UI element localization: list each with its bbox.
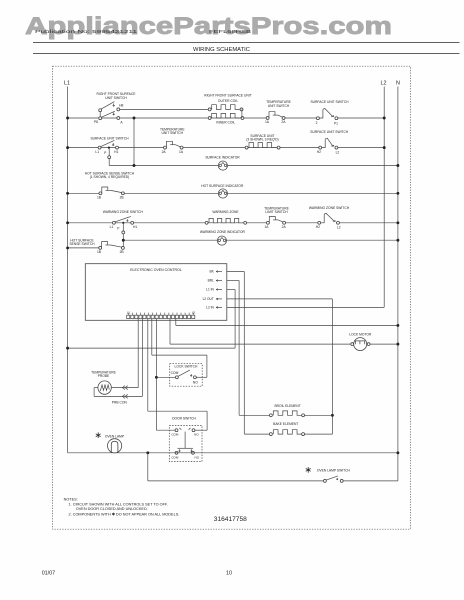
switch temperature limit switch [264, 206, 289, 229]
svg-text:L1: L1 [110, 225, 114, 229]
svg-text:UNIT SWITCH: UNIT SWITCH [105, 96, 127, 100]
svg-text:HOT SURFACE INDICATOR: HOT SURFACE INDICATOR [201, 184, 244, 188]
svg-text:LOCK SWITCH: LOCK SWITCH [175, 365, 199, 369]
svg-text:L1: L1 [64, 81, 70, 87]
svg-text:2: 2 [316, 121, 318, 125]
svg-text:01/07: 01/07 [42, 571, 56, 577]
wire row A upper branch [118, 108, 209, 110]
svg-text:PRB CON: PRB CON [112, 401, 128, 405]
wire EOC to lock motor line [170, 319, 351, 345]
svg-text:LIMIT SWITCH: LIMIT SWITCH [265, 210, 288, 214]
wire row F (to N) [122, 239, 399, 242]
wire EOC pin L2-IN to bus L2 [227, 306, 384, 308]
svg-text:OVEN LAMP: OVEN LAMP [105, 435, 125, 439]
svg-text:NO: NO [194, 433, 199, 437]
svg-text:2. COMPONENTS WITH ✱ DO NOT: 2. COMPONENTS WITH ✱ DO NOT APPEAR ON AL… [69, 513, 180, 517]
wire oven lamp line [68, 451, 400, 454]
svg-text:L1 IN: L1 IN [206, 288, 214, 292]
wire EOC pin BRL to broil element [227, 281, 269, 416]
svg-text:WARMING ZONE: WARMING ZONE [212, 210, 239, 214]
svg-text:H2: H2 [317, 150, 321, 154]
wire lamp branch down [148, 453, 323, 481]
svg-text:SURFACE UNIT SWITCH: SURFACE UNIT SWITCH [310, 130, 349, 134]
header rule top [33, 42, 460, 44]
title WIRING SCHEMATIC [193, 47, 250, 53]
lamp warming zone indicator [200, 230, 246, 245]
wire EOC to probe top [112, 319, 139, 388]
notes text [64, 498, 180, 517]
svg-text:INNER COIL: INNER COIL [216, 120, 235, 124]
header publication number [35, 29, 138, 34]
switch surface unit switch (row A right) [310, 100, 349, 125]
heater surface unit element (row B) [245, 134, 280, 149]
switch temperature unit switch (row A) [265, 100, 292, 124]
svg-text:OVEN DOOR CLOSED AND UNLOCKED.: OVEN DOOR CLOSED AND UNLOCKED. [76, 507, 148, 511]
svg-text:L2: L2 [381, 81, 387, 87]
bus N label [396, 81, 400, 87]
svg-text:WARMING ZONE SWITCH: WARMING ZONE SWITCH [309, 206, 350, 210]
svg-text:SENSE SWITCH: SENSE SWITCH [69, 242, 95, 246]
svg-text:N: N [396, 81, 400, 87]
switch warming zone switch (right) [309, 206, 350, 230]
footer date [42, 571, 56, 577]
schematic frame [53, 66, 411, 529]
wire coil join vertical [241, 109, 243, 118]
svg-text:LOCK MOTOR: LOCK MOTOR [349, 332, 372, 336]
wire door COM stub [156, 429, 175, 431]
svg-text:P1: P1 [334, 121, 338, 125]
wire EOC to lock switch NO loop [152, 319, 207, 378]
svg-text:Publication No: 5995421211: Publication No: 5995421211 [35, 29, 138, 34]
wire row F2 (L1 to switch) [66, 246, 99, 249]
wire row A tap to row C [133, 117, 136, 167]
svg-text:L1: L1 [95, 150, 99, 154]
switch lock switch S1 [170, 364, 203, 387]
switch hot surface sense switch 1 [85, 172, 135, 200]
header rule bottom [33, 53, 460, 55]
svg-text:NO: NO [193, 380, 198, 384]
svg-text:L2: L2 [336, 151, 340, 155]
heater bake element [269, 422, 304, 436]
wire warming pilot tap [122, 224, 125, 246]
motor lock motor M1 [349, 332, 372, 350]
wire row A (L1 to L2) [66, 117, 386, 120]
svg-text:316417758: 316417758 [214, 516, 247, 523]
svg-text:L2 IN: L2 IN [206, 306, 214, 310]
heater warming zone element [205, 210, 246, 224]
watermark AppliancePartsPros.com [25, 13, 392, 40]
svg-text:DOOR SWITCH: DOOR SWITCH [172, 417, 196, 421]
bus L1 vertical wire [67, 87, 69, 453]
svg-text:FEFL69HSB: FEFL69HSB [209, 29, 251, 34]
bus L2 label [381, 81, 387, 87]
svg-text:ELECTRONIC OVEN CONTROL: ELECTRONIC OVEN CONTROL [130, 268, 182, 272]
wire EOC to lock/door COM [155, 319, 158, 431]
switch hot surface sense switch 2 [69, 238, 124, 254]
footer page number [226, 571, 232, 577]
svg-text:COM: COM [171, 371, 179, 375]
svg-text:H1: H1 [133, 225, 137, 229]
svg-text:BAKE ELEMENT: BAKE ELEMENT [273, 422, 298, 426]
svg-text:BROIL ELEMENT: BROIL ELEMENT [274, 404, 300, 408]
heater inner coil [208, 113, 244, 124]
svg-text:L2: L2 [337, 226, 341, 230]
svg-text:WIRING SCHEMATIC: WIRING SCHEMATIC [193, 47, 250, 53]
svg-text:COM: COM [171, 455, 179, 459]
svg-text:L1: L1 [127, 310, 131, 314]
wire EOC pin BK to bake element [227, 272, 269, 435]
svg-text:UNIT SWITCH: UNIT SWITCH [268, 104, 290, 108]
bus L1 label [64, 81, 70, 87]
wire EOC pin L2-OUT to elements [227, 299, 334, 434]
bus N vertical wire [397, 87, 399, 481]
part number 316417758 [214, 516, 247, 523]
switch warming zone switch (left) [103, 210, 144, 230]
switch surface unit switch (row B left) [90, 137, 129, 156]
svg-text:P8: P8 [94, 120, 98, 124]
svg-text:L2: L2 [192, 310, 196, 314]
svg-text:BRL: BRL [208, 279, 214, 283]
svg-text:(3 SHOWN, 3 REQ'D): (3 SHOWN, 3 REQ'D) [246, 138, 278, 142]
lamp hot surface indicator [201, 184, 244, 198]
resistor temperature probe RT1 [91, 370, 116, 394]
wire EOC pin L1-IN to L1 branch [227, 290, 235, 349]
heater broil element [269, 404, 304, 417]
svg-text:(1 SHOWN, 4 REQUIRED): (1 SHOWN, 4 REQUIRED) [90, 175, 130, 179]
heater outer coil (right front surface unit) [204, 94, 252, 111]
svg-text:1. CIRCUIT SHOWN WITH ALL CO: 1. CIRCUIT SHOWN WITH ALL CONTROLS SET T… [69, 502, 168, 506]
switch surface unit switch (row B right) [310, 130, 349, 155]
svg-text:10: 10 [226, 571, 232, 577]
switch right front surface unit switch [94, 92, 136, 124]
wire lamp switch to N [343, 480, 398, 482]
wire row B (L1 to L2) [66, 146, 386, 149]
bus L2 vertical wire [383, 87, 385, 308]
electronic oven control box U1 [85, 264, 227, 321]
connector PRB CON chevrons [112, 386, 128, 405]
switch oven lamp switch S3 [306, 467, 351, 482]
svg-text:SURFACE UNIT SWITCH: SURFACE UNIT SWITCH [90, 137, 129, 141]
svg-text:OVEN LAMP SWITCH: OVEN LAMP SWITCH [317, 468, 351, 472]
svg-text:SURFACE INDICATOR: SURFACE INDICATOR [205, 155, 240, 159]
svg-text:OUTER COIL: OUTER COIL [218, 99, 238, 103]
svg-text:H2: H2 [316, 225, 320, 229]
switch door switch S2 [169, 417, 202, 462]
wire L1 branch [66, 347, 235, 350]
wire EOC to door switch NO loop [148, 319, 207, 431]
EOC connector strip [127, 310, 196, 318]
lamp surface indicator [205, 155, 240, 170]
svg-text:UNIT SWITCH: UNIT SWITCH [162, 131, 184, 135]
wire row E (L1 to N) [66, 221, 399, 224]
wire row C (pilot to N) [109, 159, 399, 167]
svg-text:AppliancePartsPros.com: AppliancePartsPros.com [25, 13, 392, 40]
switch temperature unit switch (row B) [160, 128, 185, 154]
svg-text:COM: COM [171, 433, 179, 437]
header model number [209, 29, 251, 34]
wire pilot tap row B [108, 149, 111, 159]
svg-text:NO: NO [195, 455, 200, 459]
svg-text:RIGHT FRONT SURFACE UNIT: RIGHT FRONT SURFACE UNIT [204, 94, 252, 98]
lamp oven lamp DS1 [96, 432, 125, 453]
wire lock motor to N [370, 343, 400, 346]
svg-text:PROBE: PROBE [98, 374, 110, 378]
svg-text:SURFACE UNIT SWITCH: SURFACE UNIT SWITCH [310, 100, 349, 104]
EOC right pin labels [203, 270, 222, 310]
wire row D (L1 to N) [66, 192, 399, 195]
svg-text:L2 OUT: L2 OUT [203, 297, 214, 301]
wire lock COM stub [156, 376, 175, 378]
svg-text:NOTES:: NOTES: [64, 498, 78, 502]
svg-text:WARMING ZONE SWITCH: WARMING ZONE SWITCH [103, 210, 144, 214]
wire EOC to line1 (N) [176, 319, 400, 327]
svg-text:H8: H8 [119, 104, 123, 108]
svg-text:H1: H1 [114, 150, 118, 154]
wire elements right join [303, 415, 332, 434]
wire EOC to probe bottom [94, 319, 142, 397]
svg-text:WARMING ZONE INDICATOR: WARMING ZONE INDICATOR [200, 230, 246, 234]
